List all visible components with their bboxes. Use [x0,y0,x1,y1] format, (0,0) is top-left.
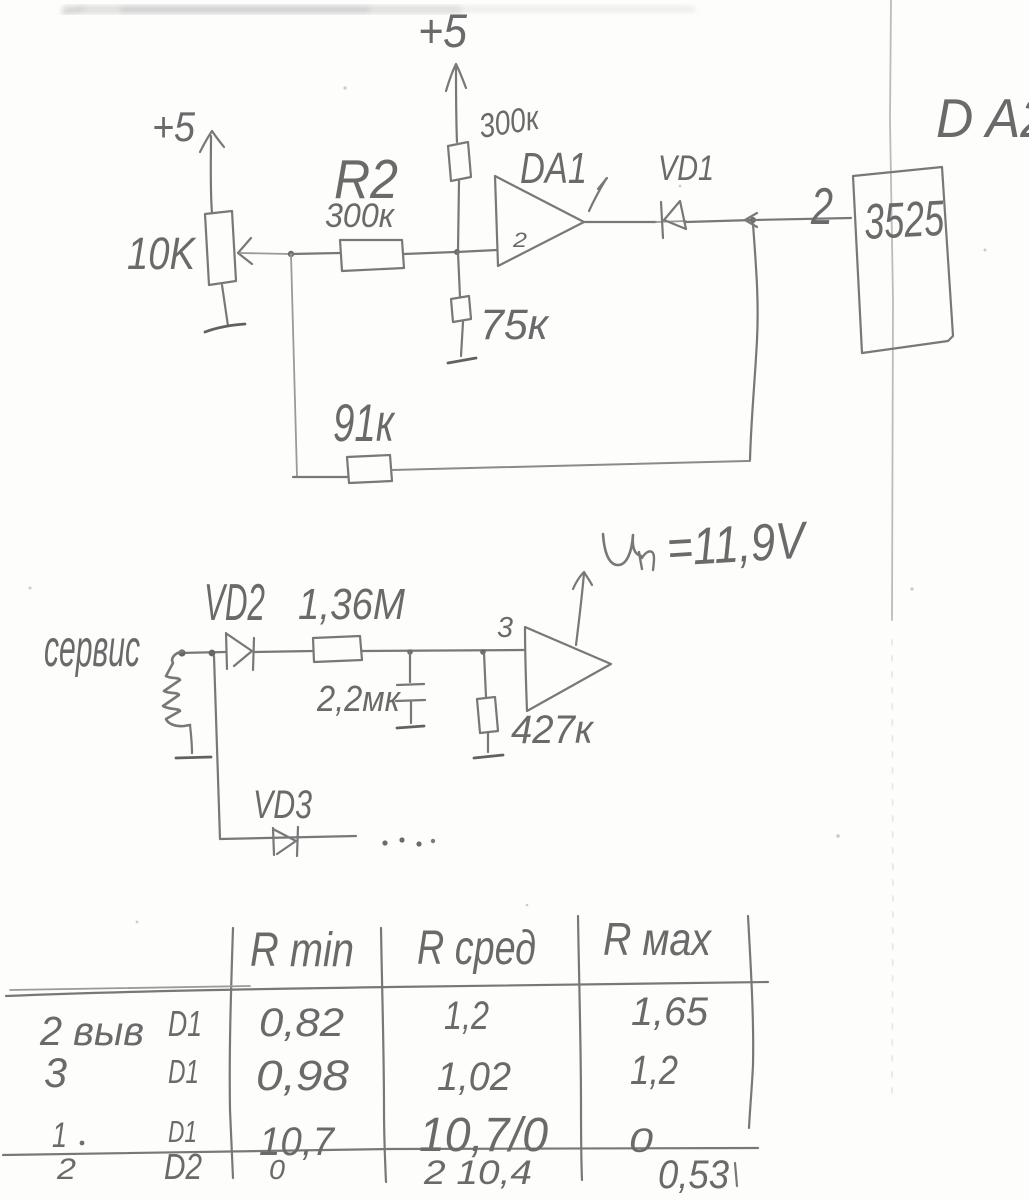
svg-text:0: 0 [269,1154,285,1185]
svg-text:D A2: D A2 [936,87,1029,149]
svg-text:1,36М: 1,36М [298,580,405,629]
svg-text:91к: 91к [333,394,395,453]
svg-text:D2: D2 [164,1146,202,1187]
svg-text:2: 2 [810,178,833,236]
svg-text:3: 3 [44,1049,67,1096]
svg-text:DA1: DA1 [520,144,587,193]
svg-text:R сред: R сред [417,922,536,975]
svg-text:0,53: 0,53 [658,1153,729,1197]
svg-text:2 10,4: 2 10,4 [423,1154,532,1192]
svg-text:2: 2 [512,229,528,252]
svg-text:1,02: 1,02 [437,1055,511,1099]
svg-text:0,82: 0,82 [259,1001,344,1045]
svg-text:3: 3 [497,612,513,644]
svg-text:10K: 10K [127,228,197,279]
svg-text:1,2: 1,2 [630,1047,678,1093]
svg-text:R min: R min [250,924,354,977]
svg-text:1,2: 1,2 [444,994,489,1038]
svg-text:3525: 3525 [863,190,946,250]
svg-text:0: 0 [629,1122,653,1160]
svg-text:VD2: VD2 [204,574,265,632]
svg-text:2: 2 [56,1153,76,1186]
svg-text:=11,9V: =11,9V [665,511,810,578]
svg-text:75к: 75к [480,301,550,349]
svg-text:VD1: VD1 [658,149,714,188]
svg-text:+5: +5 [152,103,196,150]
svg-text:D1: D1 [168,1114,197,1149]
svg-text:D1: D1 [168,1003,202,1044]
svg-text:сервис: сервис [44,620,140,678]
svg-text:2 выв: 2 выв [39,1008,144,1054]
svg-text:+5: +5 [418,4,468,57]
svg-text:0,98: 0,98 [256,1052,349,1100]
svg-text:300к: 300к [325,197,396,235]
svg-text:1: 1 [52,1116,67,1155]
svg-text:R мах: R мах [603,913,713,965]
svg-text:1,65: 1,65 [631,990,709,1034]
svg-text:VD3: VD3 [253,783,312,827]
svg-text:D1: D1 [168,1053,199,1090]
svg-text:2,2мк: 2,2мк [316,678,402,719]
svg-text:427к: 427к [511,708,595,752]
